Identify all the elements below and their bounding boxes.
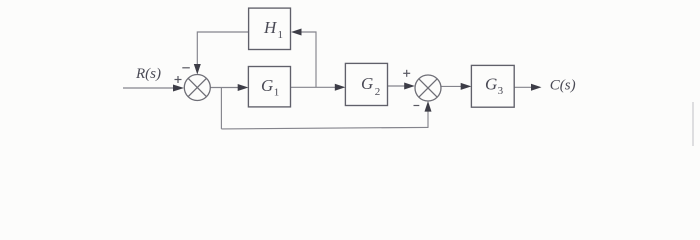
- wire G2 to junction2: [388, 85, 406, 87]
- svg-text:G: G: [485, 75, 497, 94]
- arrowhead into G1: [238, 84, 249, 91]
- wire bottom feedback tap down: [220, 88, 222, 129]
- minus sign at junction2: [414, 105, 420, 107]
- wire junction1 to G1: [210, 87, 239, 89]
- block H1: [249, 8, 291, 49]
- block G1: [248, 67, 290, 107]
- wire input R(s) to summing junction 1: [123, 87, 174, 89]
- svg-text:2: 2: [375, 86, 381, 98]
- svg-text:G: G: [361, 74, 373, 93]
- arrowhead output: [531, 84, 542, 91]
- svg-text:H: H: [263, 18, 278, 37]
- block G3: [471, 65, 514, 107]
- svg-text:G: G: [261, 76, 273, 95]
- arrowhead into junction2 left: [404, 83, 415, 90]
- wire bottom feedback horizontal: [221, 127, 428, 128]
- arrowhead bottom feedback up into junction2: [425, 101, 432, 112]
- block G2: [345, 63, 387, 105]
- svg-text:C(s): C(s): [550, 77, 576, 93]
- svg-text:R(s): R(s): [135, 66, 161, 82]
- arrowhead into G2: [335, 84, 346, 91]
- plus sign at junction2: [403, 72, 410, 74]
- svg-text:1: 1: [274, 87, 280, 99]
- plus sign at junction1: [175, 79, 182, 81]
- arrowhead input into junction1: [173, 85, 184, 92]
- arrowhead into G3: [461, 83, 472, 90]
- svg-text:3: 3: [498, 85, 504, 97]
- minus sign at junction1: [182, 67, 190, 69]
- summing junction 1: [184, 75, 210, 101]
- arrowhead into H1 right side: [291, 29, 302, 36]
- wire G3 to output C(s): [514, 86, 532, 88]
- wire bottom feedback up into junction2: [427, 111, 429, 128]
- wire tap up to H1: [301, 32, 316, 87]
- arrowhead H1 output down into junction1: [194, 64, 201, 75]
- summing junction 2: [415, 75, 441, 101]
- wire G1 to G2: [291, 86, 337, 88]
- wire H1 output to junction1 top: [197, 32, 248, 65]
- wire junction2 to G3: [441, 85, 461, 87]
- svg-text:1: 1: [278, 29, 284, 41]
